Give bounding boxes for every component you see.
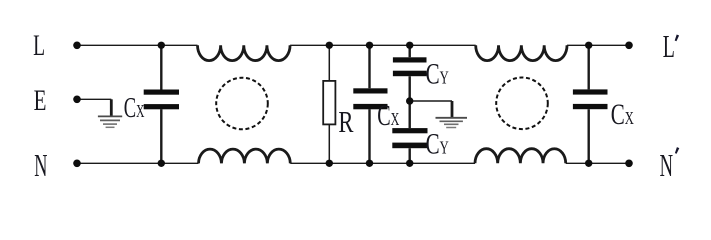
junction top at CX3: [585, 42, 592, 49]
junction bottom at CY2: [406, 160, 413, 167]
svg-text:L: L: [663, 30, 675, 65]
junction bottom at CX2: [366, 160, 373, 167]
node L' (terminal dot): [625, 42, 633, 50]
junction CY midpoint: [406, 97, 413, 104]
node L (terminal dot): [73, 42, 81, 50]
node N' (terminal dot): [625, 160, 633, 168]
capacitor CY1 (top) leads: [409, 45, 411, 101]
wire bottom N segment 1: [77, 162, 199, 164]
wire E: [77, 98, 111, 100]
inductor T2 top winding: [476, 45, 567, 60]
inductor T2 bottom winding: [475, 149, 566, 164]
junction top at R: [326, 42, 333, 49]
wire top L segment 3: [567, 44, 629, 46]
ground (E input): [98, 99, 122, 127]
capacitor CX1 (left) leads: [160, 45, 162, 163]
wire top L segment 2: [290, 44, 476, 46]
junction bottom at R: [326, 160, 333, 167]
wire bottom N segment 2: [290, 162, 475, 164]
inductor T1 top winding: [198, 45, 291, 60]
svg-text:N: N: [34, 148, 47, 184]
wire top L segment 1: [77, 44, 198, 46]
capacitor CX3 (right) plates: [573, 89, 608, 94]
node E (terminal dot): [73, 96, 81, 104]
node N (terminal dot): [73, 160, 81, 168]
junction top at CX2: [366, 42, 373, 49]
junction bottom at CX3: [585, 160, 592, 167]
svg-text:E: E: [34, 83, 47, 117]
wire bottom N segment 3: [566, 162, 629, 164]
junction bottom at CX1: [158, 160, 165, 167]
capacitor CX1 (left) plates: [144, 90, 179, 95]
capacitor CX3 (right) leads: [588, 45, 590, 163]
capacitor CY2 (bottom) leads: [409, 101, 411, 163]
junction top at CY1: [406, 42, 413, 49]
svg-text:L: L: [33, 29, 45, 62]
core T1 (dashed circle): [216, 78, 268, 130]
resistor R body: [323, 81, 335, 125]
svg-text:R: R: [338, 105, 354, 139]
capacitor CX2 (middle) leads: [368, 45, 370, 163]
inductor T1 bottom winding: [199, 149, 291, 163]
svg-text:N: N: [660, 148, 673, 183]
resistor R leads: [328, 45, 330, 163]
ground (CY midpoint): [436, 101, 468, 128]
capacitor CX2 (middle) plates: [353, 88, 387, 93]
capacitor CY2 (bottom) plates: [392, 128, 427, 133]
core T2 (dashed circle): [496, 78, 548, 130]
junction top at CX1: [158, 42, 165, 49]
capacitor CY1 (top) plates: [393, 57, 427, 62]
wire ground feed (Cy midpoint): [410, 100, 452, 102]
